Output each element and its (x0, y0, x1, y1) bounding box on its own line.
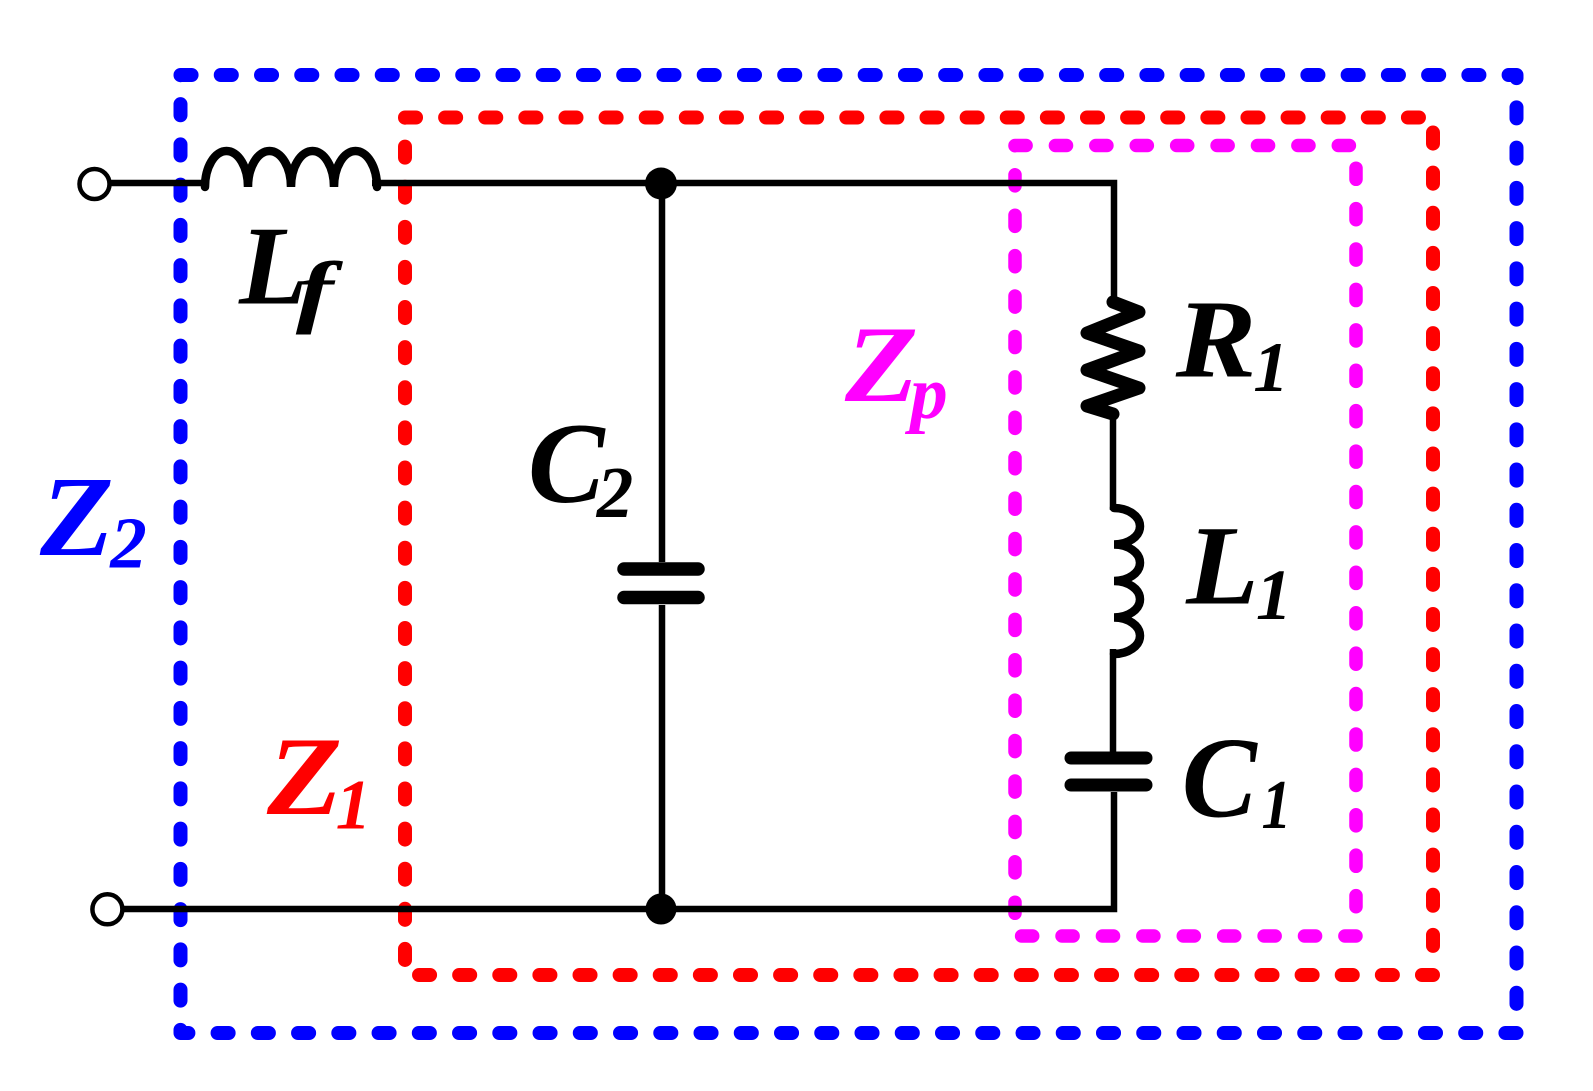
svg-text:Z: Z (39, 453, 114, 581)
svg-text:Z: Z (844, 304, 918, 425)
svg-text:C: C (1182, 713, 1259, 842)
svg-text:2: 2 (109, 503, 147, 584)
svg-text:1: 1 (1256, 555, 1292, 635)
svg-text:1: 1 (1262, 767, 1292, 845)
svg-text:L: L (1185, 504, 1258, 629)
svg-text:1: 1 (1253, 329, 1289, 407)
svg-text:R: R (1175, 279, 1257, 401)
svg-text:Z: Z (266, 715, 342, 839)
svg-text:p: p (904, 352, 948, 435)
svg-text:2: 2 (596, 452, 634, 533)
svg-text:1: 1 (336, 767, 372, 845)
svg-text:C: C (528, 400, 606, 527)
